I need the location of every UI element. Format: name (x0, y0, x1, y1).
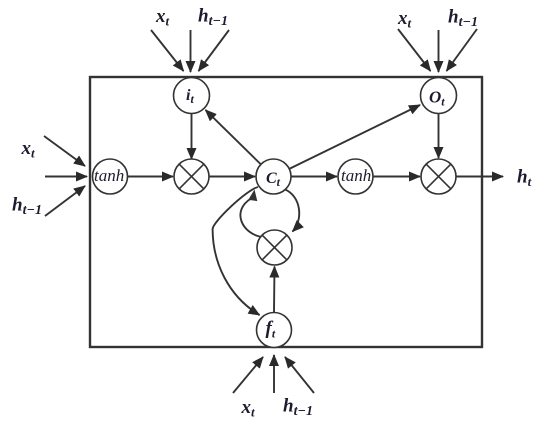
svg-text:ht: ht (517, 167, 532, 190)
svg-text:ht−1: ht−1 (198, 6, 228, 30)
svg-text:tanh: tanh (94, 166, 124, 185)
svg-text:ht−1: ht−1 (448, 7, 478, 31)
svg-text:ht−1: ht−1 (283, 396, 313, 420)
svg-text:tanh: tanh (341, 166, 371, 185)
svg-text:xt: xt (241, 397, 256, 420)
svg-text:xt: xt (397, 8, 412, 31)
svg-text:ht−1: ht−1 (12, 195, 42, 219)
svg-text:xt: xt (21, 138, 36, 161)
svg-text:xt: xt (155, 6, 170, 29)
